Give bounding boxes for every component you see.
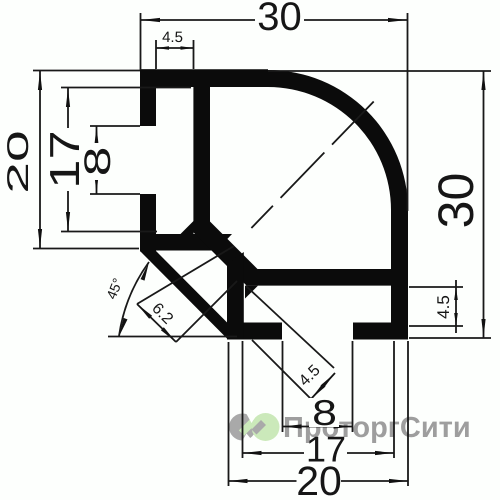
arrow top30 left — [141, 18, 160, 22]
arrow bottom8 left — [283, 424, 302, 428]
wire bottom 17 dim line — [243, 452, 305, 454]
svg-text:30: 30 — [428, 173, 484, 229]
arrow bottom17 left — [243, 451, 262, 455]
wire top 4.5 right extension — [193, 40, 195, 69]
profile left wall upper segment — [140, 69, 156, 126]
arrow rot4.5 lower — [311, 384, 326, 399]
wire rotated 4.5 upper slot edge extension — [246, 286, 334, 368]
arrow bottom20 left — [229, 479, 248, 483]
wire rotated 4.5 lower slot edge extension — [252, 340, 311, 399]
wire dashed symmetry diagonal — [234, 95, 380, 246]
wire left 20 dim line — [39, 71, 41, 248]
svg-text:30: 30 — [257, 0, 302, 39]
profile bottom flange right segment — [353, 323, 408, 340]
profile middle bar + inner chamfer + inner bar — [193, 87, 391, 286]
arrow right4.5 down — [454, 313, 458, 326]
wire rotated 4.5 dim line — [311, 373, 335, 399]
arrow rot4.5 upper — [321, 373, 336, 388]
arrow right4.5 up — [454, 287, 458, 300]
arrow left20 down — [38, 229, 42, 248]
arrow left8 up — [94, 126, 98, 145]
wire bottom 20 dim line — [229, 480, 297, 482]
wire left 8 bottom extension — [90, 193, 140, 195]
arrow left17 up — [66, 88, 70, 107]
wire 45deg angle arc — [119, 262, 149, 336]
arrow top4.5 left — [156, 46, 169, 50]
arrow 6.2 upper — [137, 304, 152, 319]
wire left 8 top extension — [90, 125, 140, 127]
watermark logo gray leaf disc — [229, 414, 256, 441]
wire top-right extension line — [407, 13, 409, 211]
wire left bottom extension — [33, 248, 139, 250]
profile vertical lip strip of bottom channel — [227, 252, 244, 340]
wire 6.2 upper extension line — [137, 246, 234, 304]
wire bottom 8 left extension — [282, 341, 284, 432]
wire left 17 dim line — [67, 88, 69, 231]
wire bottom 20 right extension — [407, 341, 409, 486]
arrow 6.2 lower — [161, 327, 176, 342]
arrow top4.5 right — [181, 46, 194, 50]
wire top-left extension line — [140, 13, 142, 70]
arrow 45arc bottom — [119, 318, 128, 337]
profile left wall lower segment — [140, 194, 156, 252]
wire right bottom extension — [409, 337, 491, 339]
wire left top extension — [33, 70, 140, 72]
profile bottom wall of left channel with 45deg end cut — [156, 234, 232, 251]
svg-text:20: 20 — [296, 458, 342, 500]
svg-text:4.5: 4.5 — [162, 29, 183, 46]
wire left 17 top extension — [61, 87, 191, 89]
wire right 30 dim line — [483, 71, 485, 338]
arrow left8 down — [94, 175, 98, 194]
profile right wall — [391, 210, 408, 340]
wire right top extension — [268, 70, 491, 72]
wire top 4.5 dim line — [156, 47, 194, 49]
wire top 4.5 left extension — [155, 40, 157, 69]
profile lip junction fillet right — [245, 286, 258, 299]
arrow bottom17 right — [375, 451, 394, 455]
svg-text:8: 8 — [312, 392, 337, 433]
wire 6.2 lower extension line — [176, 281, 237, 342]
white halos behind dimension texts — [5, 1, 474, 427]
arrow right30 up — [481, 71, 485, 90]
arrow 45arc top — [141, 262, 150, 281]
wire left 8 dim line — [96, 126, 98, 194]
wire bottom 8 dim line — [283, 426, 353, 428]
wire right 4.5 dim line — [455, 280, 457, 333]
svg-text:8: 8 — [77, 147, 118, 177]
wire bottom 17 right extension — [393, 341, 395, 458]
profile bottom flange left segment — [231, 323, 282, 340]
profile lip junction fillet left — [181, 221, 194, 234]
arrow bottom8 right — [334, 424, 353, 428]
svg-text:4.5: 4.5 — [434, 295, 453, 319]
wire bottom 8 right extension — [352, 341, 354, 432]
profile top wall — [140, 69, 268, 87]
profile outer 45deg chamfer band — [140, 251, 244, 340]
wire 45deg angle horizontal reference — [108, 336, 237, 338]
arrow left20 up — [38, 71, 42, 90]
wire bottom 20 left extension — [228, 342, 230, 486]
watermark logo green leaf disc — [239, 409, 280, 446]
wire bottom 17 left extension — [242, 341, 244, 458]
arrow right30 down — [481, 319, 485, 338]
wire 6.2 dim line — [137, 304, 176, 342]
svg-text:20: 20 — [2, 130, 35, 193]
wire right 4.5 bottom extension — [409, 325, 463, 327]
wire right 4.5 top extension — [409, 286, 463, 288]
arrow bottom20 right — [389, 479, 408, 483]
arrow left17 down — [66, 212, 70, 231]
wire top dim line 30 — [141, 19, 407, 21]
wire left 17 bottom extension — [61, 231, 157, 233]
arrow top30 right — [388, 18, 407, 22]
profile outer arc ring (quarter annulus) — [268, 70, 408, 210]
